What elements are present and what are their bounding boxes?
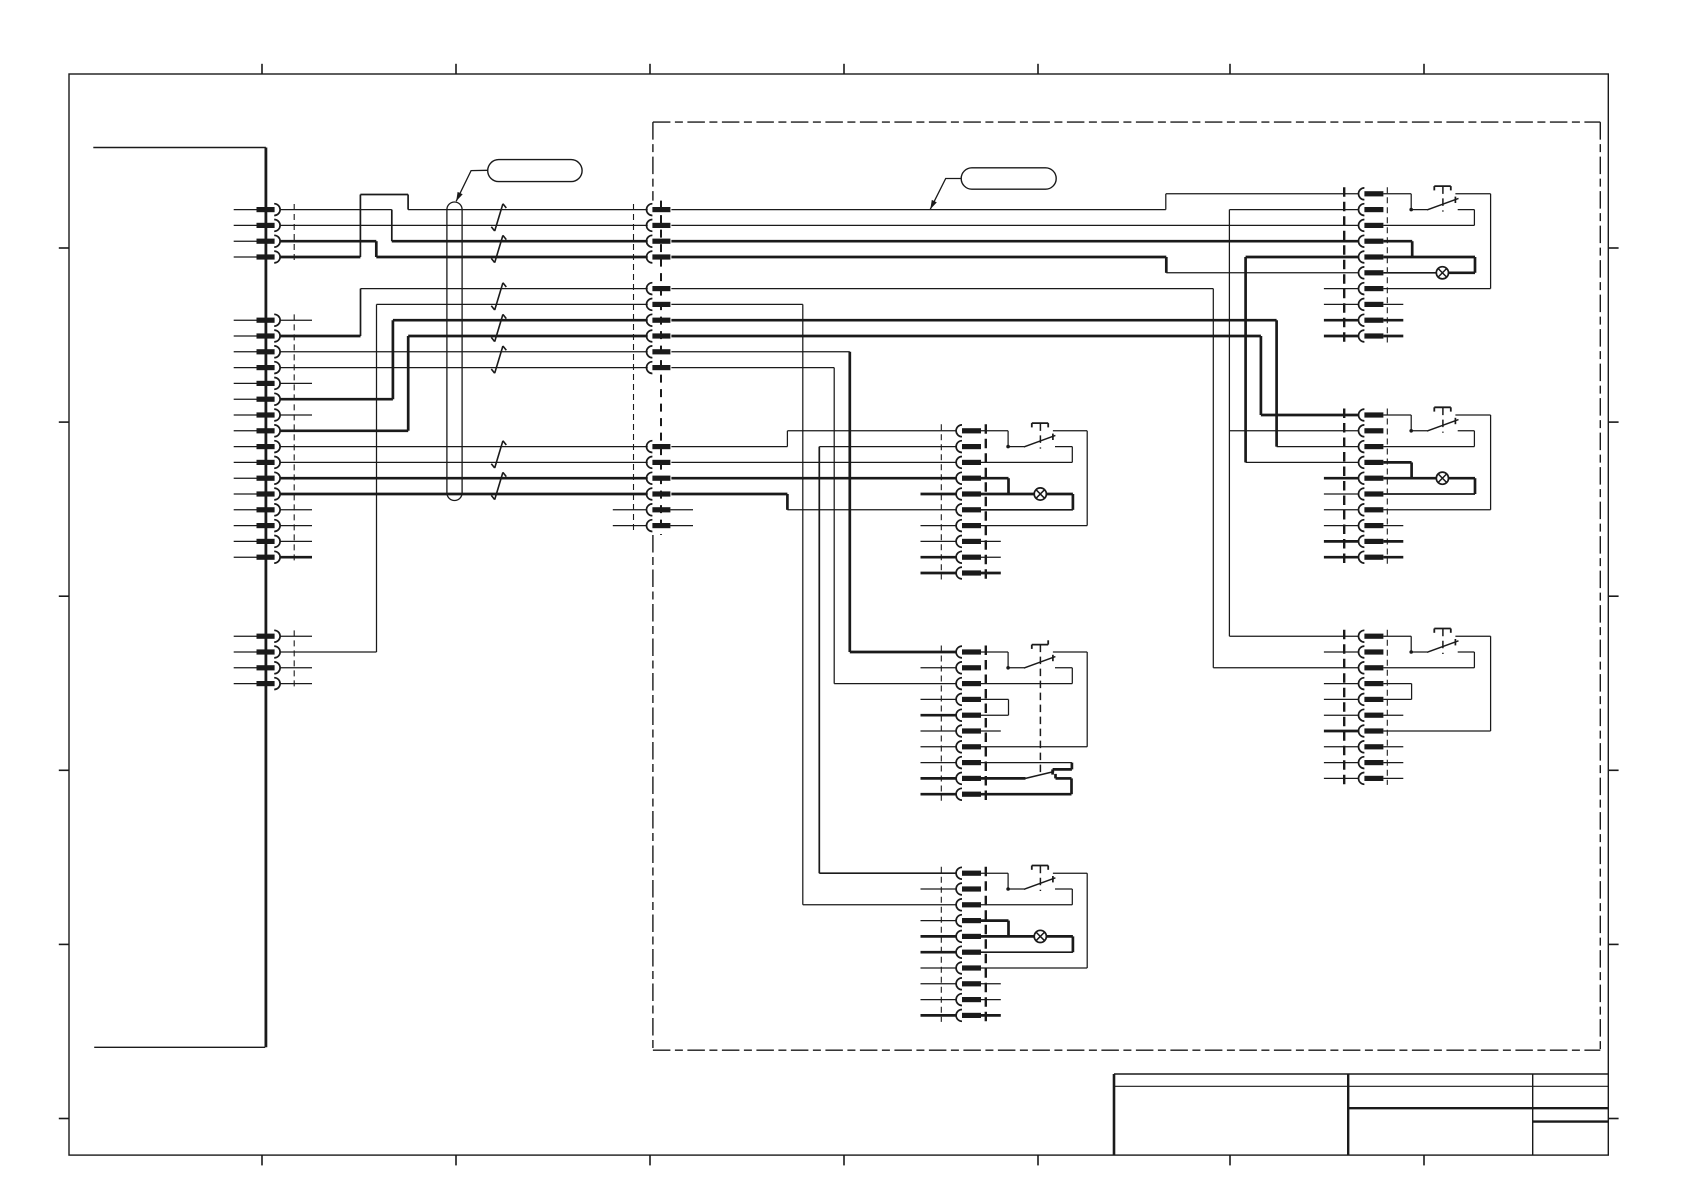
conductor pair marker 7 [491,472,506,499]
ECU connector B pin 3 [234,346,280,358]
unit D switch contact wire to pin 3 [1383,210,1474,226]
unit A switch output wire to pin 7 [981,431,1087,526]
unit E switch pole junction [1409,429,1413,433]
unit F connector pin 1 [1359,630,1384,642]
cable grouping capsule W1 [447,202,462,501]
ECU connector B pin 9 [234,441,280,453]
switch S-C blade [1008,878,1055,890]
unit E connector pin 7 [1359,504,1384,516]
unit A switch contact wire to pin 3 [981,447,1072,463]
unit C connector pin 7 [956,962,981,974]
switch S-E push actuator bracket [1434,407,1451,411]
unit A pin 8 right stub [981,540,1001,542]
switch S-C push actuator bracket [1032,866,1048,870]
unit C pin 8 left stub [921,983,957,985]
ECU connector B pin 6 [234,393,280,405]
unit B pin 8 left stub [921,762,957,764]
unit C pin 7 left stub [921,967,957,969]
unit C connector pin 2 [956,883,981,895]
unit C pin 6 left stub [921,951,957,954]
unit B switch pole junction [1006,666,1010,670]
unit E connector pin 3 [1359,441,1384,453]
unit D pin 10 right stub [1383,335,1403,338]
unit F switch output wire to pin 7 [1383,636,1490,731]
lamp DS-D [1436,267,1448,279]
unit D lamp wiring [1383,257,1475,273]
wire bulkhead row 4 to unit D pin 6 [671,257,1358,273]
cable label callout 2 [961,168,1056,189]
ECU connector B pin 15 [234,536,280,548]
unit E lamp wiring [1383,478,1475,494]
wire stub [280,525,312,527]
unit C connector pin 1 [956,867,981,879]
unit F connector pin 4 [1359,678,1384,690]
unit B connector pin 2 [956,662,981,674]
unit D switch pole junction [1409,208,1413,212]
unit E pin 9 left stub [1324,540,1359,543]
unit B switch contact wire to pin 3 [981,668,1072,684]
unit B connector pin 3 [956,678,981,690]
unit E pin 8 left stub [1324,525,1359,527]
unit C connector pin 10 [956,1010,981,1022]
wire bulkhead row 8 to unit E pin 1 [671,336,1358,415]
unit C connector pin 4 [956,915,981,927]
conductor pair marker 1 [491,204,506,231]
wire ECU B3 to bulkhead row 9 [280,351,648,353]
unit D pin 10 left stub [1324,335,1359,338]
wire stub [280,667,312,669]
wire ECU B2 to bulkhead row 5 [280,289,648,336]
unit B connector pin 6 [956,725,981,737]
unit E pin 6 left stub [1324,493,1359,495]
unit C switch output wire to pin 7 [981,873,1087,968]
wire ECU C2 to bulkhead row 6 [280,304,648,652]
bulkhead connector pin 3 [647,235,671,247]
switch S-F blade [1411,641,1458,653]
unit A connector pin 9 [956,551,981,563]
callout 1 leader arrow [456,170,487,201]
bulkhead connector pin 14 [647,488,671,500]
unit F pins 4-5 jumper wire [1383,684,1411,700]
switch S-E contact tick [1454,418,1456,424]
ECU connector A pin 4 [234,251,280,263]
wire ECU B12 to bulkhead row 14 [280,493,648,496]
wire stub [280,540,312,542]
unit B pin 5 left stub [921,714,957,717]
unit B pin 2 left stub [921,667,957,669]
switch S-B push actuator bracket [1032,640,1048,649]
switch S-F contact tick [1454,639,1456,645]
wire stub [280,414,312,416]
bulkhead connector pin 2 [647,220,671,232]
unit E connector pin 1 [1359,409,1384,421]
unit A pin 5 left stub [921,493,957,496]
unit C pin 1 wire to switch pole [981,873,1008,889]
bulkhead connector pin 16 [647,520,671,532]
wire bulkhead row 13 to unit A pin 4 [671,477,956,480]
wire bulkhead row 11 to unit A pin 1 [671,431,956,447]
lamp feed wire unit D pin 5 to unit E pin 4 [1246,257,1359,462]
ECU connector A pin 3 [234,235,280,247]
unit B connector pin 7 [956,741,981,753]
unit B pin 6 right stub [981,730,1001,732]
bulkhead connector pin 13 [647,472,671,484]
unit D connector pin 9 [1359,314,1384,326]
unit A connector pin 6 [956,504,981,516]
bulkhead connector pin 12 [647,457,671,469]
unit A lamp wiring [981,494,1073,510]
unit F switch pole junction [1409,650,1413,654]
switch S-D push actuator bracket [1434,186,1451,190]
wire bulkhead row 5 to unit F pin 3 [671,289,1358,668]
unit D pin 4 lamp feed wire [1383,241,1412,257]
bulkhead connector pin 9 [647,346,671,358]
switch S-B contact tick [1052,655,1054,661]
wire stub [280,683,312,685]
switch S-E blade [1411,420,1458,432]
title block divider 1 [1347,1074,1349,1155]
unit B switch output wire to pin 7 [981,652,1087,747]
title block outline [1114,1074,1608,1155]
unit D connector pin 5 [1359,251,1384,263]
unit B pin 8 wire to switch 2 upper contact [981,763,1072,775]
wire bulkhead row 6 to unit C pin 3 [671,304,956,904]
conductor pair marker 4 [491,314,506,341]
ECU connector A pin 1 [234,204,280,216]
unit F connector pin 2 [1359,646,1384,658]
ECU connector A pin 2 [234,220,280,232]
unit A connector pin 8 [956,536,981,548]
unit D connector pin 10 [1359,330,1384,342]
unit F pin 2 left stub [1324,651,1359,653]
unit D connector dashed lines [1344,187,1387,342]
unit B pins 4-5 jumper wire [981,699,1009,715]
unit F pin 5 left stub [1324,698,1359,700]
unit F pin 9 right stub [1383,762,1403,764]
unit A pin 10 right stub [981,572,1001,575]
unit B pin 9 left stub [921,777,957,780]
switch S-D blade [1411,198,1458,210]
unit C switch pole junction [1006,887,1010,891]
switch S-A actuator link dashed [1039,423,1041,448]
ECU connector B pin 11 [234,472,280,484]
unit D pin 9 right stub [1383,319,1403,322]
unit C pin 5 left stub [921,935,957,938]
unit F connector pin 6 [1359,709,1384,721]
title block header line [1114,1085,1608,1087]
unit F switch contact wire to pin 3 [1383,652,1474,668]
unit B pin 6 left stub [921,730,957,732]
ECU connector C dashed boundary [293,630,295,689]
bulkhead connector pin 15 [647,504,671,516]
unit A connector pin 5 [956,488,981,500]
ECU connector C pin 3 [234,662,280,674]
unit D pin 8 right stub [1383,303,1403,305]
unit C connector pin 6 [956,946,981,958]
ECU connector B pin 12 [234,488,280,500]
switch S-A contact tick [1052,434,1054,440]
ECU connector B pin 1 [234,314,280,326]
unit A connector pin 4 [956,472,981,484]
wire bulkhead row 3 to unit D pin 4 [671,240,1358,243]
wire stub [280,382,312,384]
unit A pin 10 left stub [921,572,957,575]
wire unit A pin 2 to unit C pin 1 [819,447,956,874]
unit E pin 10 right stub [1383,556,1403,559]
ECU connector B dashed boundary [293,314,295,563]
bulkhead pin 16 stub wires [613,525,693,527]
unit C pin 10 left stub [921,1014,957,1017]
unit E pin 8 right stub [1383,525,1403,527]
unit D pin 1 wire to switch pole [1383,194,1411,210]
ECU connector B pin 13 [234,504,280,516]
unit E pin 7 left stub [1324,509,1359,511]
wire stub [280,509,312,511]
unit C pin 2 left stub [921,888,957,890]
unit B pin 4 left stub [921,698,957,700]
unit E connector pin 9 [1359,536,1384,548]
wire bulkhead row 1 to unit D pin 1 [671,194,1358,210]
unit A pin 1 wire to switch pole [981,431,1008,447]
unit D pin 9 left stub [1324,319,1359,322]
wire ECU B10 to bulkhead row 12 [280,461,648,463]
unit D connector pin 4 [1359,235,1384,247]
unit D connector pin 3 [1359,220,1384,232]
wire ECU B8 to bulkhead row 8 [280,336,648,431]
bulkhead connector pin 7 [647,314,671,326]
bulkhead connector pin 6 [647,299,671,311]
unit B connector pin 5 [956,709,981,721]
unit E connector pin 6 [1359,488,1384,500]
unit C connector pin 5 [956,931,981,943]
switch S-F push actuator bracket [1434,629,1451,633]
unit C connector pin 3 [956,899,981,911]
unit D connector pin 2 [1359,204,1384,216]
unit F pin 10 left stub [1324,777,1359,779]
wire bulkhead row 14 to unit A pin 6 [671,494,956,510]
unit C connector dashed lines [941,867,986,1022]
wire bulkhead row 9 to unit B pin 1 [671,352,956,652]
switch S-B blade [1008,657,1055,669]
unit F pin 8 right stub [1383,746,1403,748]
wire ECU A4 to bulkhead row 1 top detour [280,195,648,258]
lamp DS-E [1436,472,1448,484]
unit F pin 7 left stub [1324,730,1359,733]
unit F pin 4 left stub [1324,683,1359,685]
bulkhead connector pin 5 [647,283,671,295]
unit B connector pin 8 [956,757,981,769]
unit D switch output wire to pin 7 [1383,194,1490,289]
wire stub [280,319,312,321]
unit E switch output wire to pin 7 [1383,415,1490,510]
unit B pin 10 left stub [921,793,957,796]
wire ECU B9 to bulkhead row 11 [280,446,648,448]
unit C pin 9 left stub [921,999,957,1001]
wire ECU A1 to bulkhead row 3 [280,210,648,242]
unit F connector pin 9 [1359,757,1384,769]
conductor pair marker 6 [491,441,506,468]
unit A pin 4 lamp feed wire [981,478,1009,494]
switch S-E actuator link dashed [1442,408,1444,433]
title block divider 2 [1532,1074,1534,1155]
lamp DS-C [1034,930,1046,942]
bulkhead connector pin 8 [647,330,671,342]
switch S-B actuator link dashed [1039,645,1041,776]
unit E connector pin 4 [1359,457,1384,469]
unit C pin 10 right stub [981,1014,1001,1017]
wire ECU A2 to bulkhead row 2 [280,224,648,226]
unit E pin 9 right stub [1383,540,1403,543]
ECU connector B pin 8 [234,425,280,437]
wire bulkhead row 7 to unit E pin 3 [671,320,1358,446]
ECU connector B pin 2 [234,330,280,342]
common feed wire to switch poles of units D E F [1229,210,1358,637]
wire stub [280,556,312,559]
ECU connector B pin 14 [234,520,280,532]
bulkhead connector pin 11 [647,441,671,453]
ECU connector A dashed boundary [293,204,295,263]
switch S-F actuator link dashed [1442,629,1444,654]
switch S-D actuator link dashed [1442,186,1444,211]
unit B connector pin 1 [956,646,981,658]
unit E connector pin 10 [1359,551,1384,563]
wire ECU B11 to bulkhead row 13 [280,477,648,480]
unit E pin 4 lamp feed wire [1383,462,1411,478]
unit F pin 8 left stub [1324,746,1359,748]
unit B connector pin 4 [956,694,981,706]
unit F pin 1 wire to switch pole [1383,636,1411,652]
switch S-C contact tick [1052,876,1054,882]
unit A connector pin 3 [956,457,981,469]
ECU connector B pin 7 [234,409,280,421]
unit E pin 10 left stub [1324,556,1359,559]
unit F pin 6 left stub [1324,714,1359,716]
unit E switch contact wire to pin 3 [1383,431,1474,447]
enclosure boundary dash-dot box [653,122,1600,1050]
bulkhead connector pin 4 [647,251,671,263]
unit E pin 5 left stub [1324,477,1359,480]
unit C pin 8 right stub [981,983,1001,985]
conductor pair marker 5 [491,346,506,373]
unit F connector pin 3 [1359,662,1384,674]
unit A pin 9 left stub [921,556,957,559]
cable label callout 1 [488,160,582,182]
lamp DS-A [1034,488,1046,500]
unit C lamp wiring [981,936,1073,952]
unit F pin 6 right stub [1383,714,1403,716]
switch S-A push actuator bracket [1032,423,1048,427]
wire bulkhead row 12 to unit A pin 3 [671,461,956,463]
unit F pin 10 right stub [1383,777,1403,779]
unit F connector dashed lines [1344,630,1387,785]
unit F connector pin 5 [1359,694,1384,706]
unit E pin 1 wire to switch pole [1383,415,1411,431]
unit B switch 2 lower contact wire to pin 10 [981,774,1072,794]
switch S-B-2 pole and blade [981,772,1054,779]
unit B pin 1 wire to switch pole [981,652,1008,668]
switch S-C actuator link dashed [1039,866,1041,891]
ECU connector C pin 2 [234,646,280,658]
unit A switch pole junction [1006,445,1010,449]
unit A connector pin 10 [956,567,981,579]
callout 2 leader arrow [930,179,961,210]
unit B connector pin 9 [956,773,981,785]
unit B connector dashed lines [941,646,986,801]
bulkhead pin 15 stub wires [613,509,693,511]
wire bulkhead row 2 to unit D pin 3 [671,224,1358,226]
unit A pin 8 left stub [921,540,957,542]
title block middle separator [1348,1107,1608,1109]
bulkhead connector centerline dashed [660,201,662,535]
unit D pin 7 left stub [1324,288,1359,290]
unit F connector pin 10 [1359,773,1384,785]
unit D connector pin 1 [1359,188,1384,200]
unit C connector pin 9 [956,994,981,1006]
wire ECU B4 to bulkhead row 10 [280,367,648,369]
unit A connector pin 2 [956,441,981,453]
ECU connector B pin 5 [234,378,280,390]
unit C pin 4 lamp feed wire [981,921,1009,937]
ECU connector C pin 4 [234,678,280,690]
ECU control unit outline [93,148,266,1048]
ECU connector C pin 1 [234,630,280,642]
unit C switch contact wire to pin 3 [981,889,1072,905]
ECU connector B pin 4 [234,362,280,374]
wire ECU B6 to bulkhead row 7 [280,320,648,399]
unit E connector pin 5 [1359,472,1384,484]
unit D connector pin 7 [1359,283,1384,295]
unit C connector pin 8 [956,978,981,990]
unit A connector dashed lines [941,424,986,579]
unit A pin 7 left stub [921,525,957,527]
ECU connector B pin 16 [234,551,280,563]
wire bulkhead row 10 to unit B pin 3 [671,368,956,684]
unit F connector pin 7 [1359,725,1384,737]
unit B pin 7 left stub [921,746,957,748]
unit D pin 8 left stub [1324,303,1359,305]
unit E connector pin 8 [1359,520,1384,532]
unit C pin 9 right stub [981,999,1001,1001]
unit A pin 9 right stub [981,556,1001,558]
bulkhead connector pin 1 [647,204,671,216]
wire stub [280,635,312,637]
conductor pair marker 3 [491,283,506,310]
unit B connector pin 10 [956,788,981,800]
bulkhead connector dashed line [633,204,635,532]
conductor pair marker 2 [491,235,506,262]
switch S-A blade [1008,435,1055,447]
unit C pin 4 left stub [921,920,957,922]
unit E connector pin 2 [1359,425,1384,437]
unit A connector pin 7 [956,520,981,532]
unit F connector pin 8 [1359,741,1384,753]
unit D connector pin 6 [1359,267,1384,279]
wire ECU A3 to bulkhead row 4 [280,241,648,257]
unit E connector dashed lines [1344,409,1387,564]
bulkhead connector pin 10 [647,362,671,374]
unit D connector pin 8 [1359,299,1384,311]
unit F pin 9 left stub [1324,762,1359,764]
unit A connector pin 1 [956,425,981,437]
ECU connector B pin 10 [234,457,280,469]
title block right separator [1533,1120,1609,1122]
switch S-D contact tick [1454,197,1456,203]
